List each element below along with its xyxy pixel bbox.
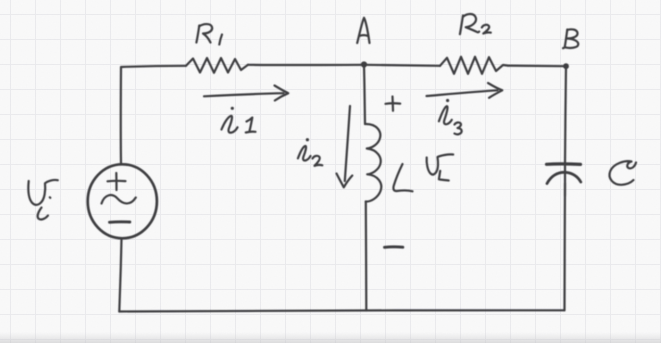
resistor R1 — [186, 58, 248, 73]
capacitor C top plate — [547, 162, 581, 166]
wire: top-left corner, Vi top to R1 — [121, 66, 186, 163]
resistor R2 — [440, 57, 508, 74]
arrow i2 — [337, 106, 353, 187]
wire: inductor to bottom wire — [365, 202, 368, 311]
arrow i3 — [427, 83, 503, 98]
inductor minus sign — [385, 245, 403, 248]
label R2 — [460, 14, 491, 34]
label VL — [427, 154, 454, 180]
wire: node B down to capacitor — [565, 66, 566, 163]
label i2 — [298, 138, 322, 166]
node A — [361, 61, 367, 67]
wire: R2 to node B — [508, 64, 566, 67]
wire: node A to R2 — [364, 65, 440, 66]
source Vi plus sign — [108, 173, 126, 190]
source Vi sine tilde — [102, 195, 136, 203]
arrow i1 — [204, 86, 288, 101]
label R1 — [196, 24, 222, 44]
wire: R1 to node A — [248, 64, 364, 66]
label L — [393, 164, 412, 191]
wire: node A down to inductor — [364, 65, 365, 124]
source Vi minus sign — [110, 220, 130, 223]
wire: Vi bottom to bottom-left corner — [119, 239, 121, 312]
label Vi — [28, 180, 57, 220]
source Vi circle — [88, 164, 157, 238]
capacitor C bottom plate — [547, 172, 581, 183]
bottom wire — [119, 310, 564, 311]
inductor L coil — [365, 124, 381, 202]
label A — [357, 18, 369, 43]
label B — [563, 29, 578, 48]
node B — [563, 63, 569, 69]
inductor plus sign — [386, 97, 401, 111]
label C — [609, 161, 636, 185]
label i3 — [439, 99, 462, 134]
label i1 — [222, 107, 256, 133]
wire: capacitor through-stroke and down to bottom wire — [564, 164, 566, 197]
